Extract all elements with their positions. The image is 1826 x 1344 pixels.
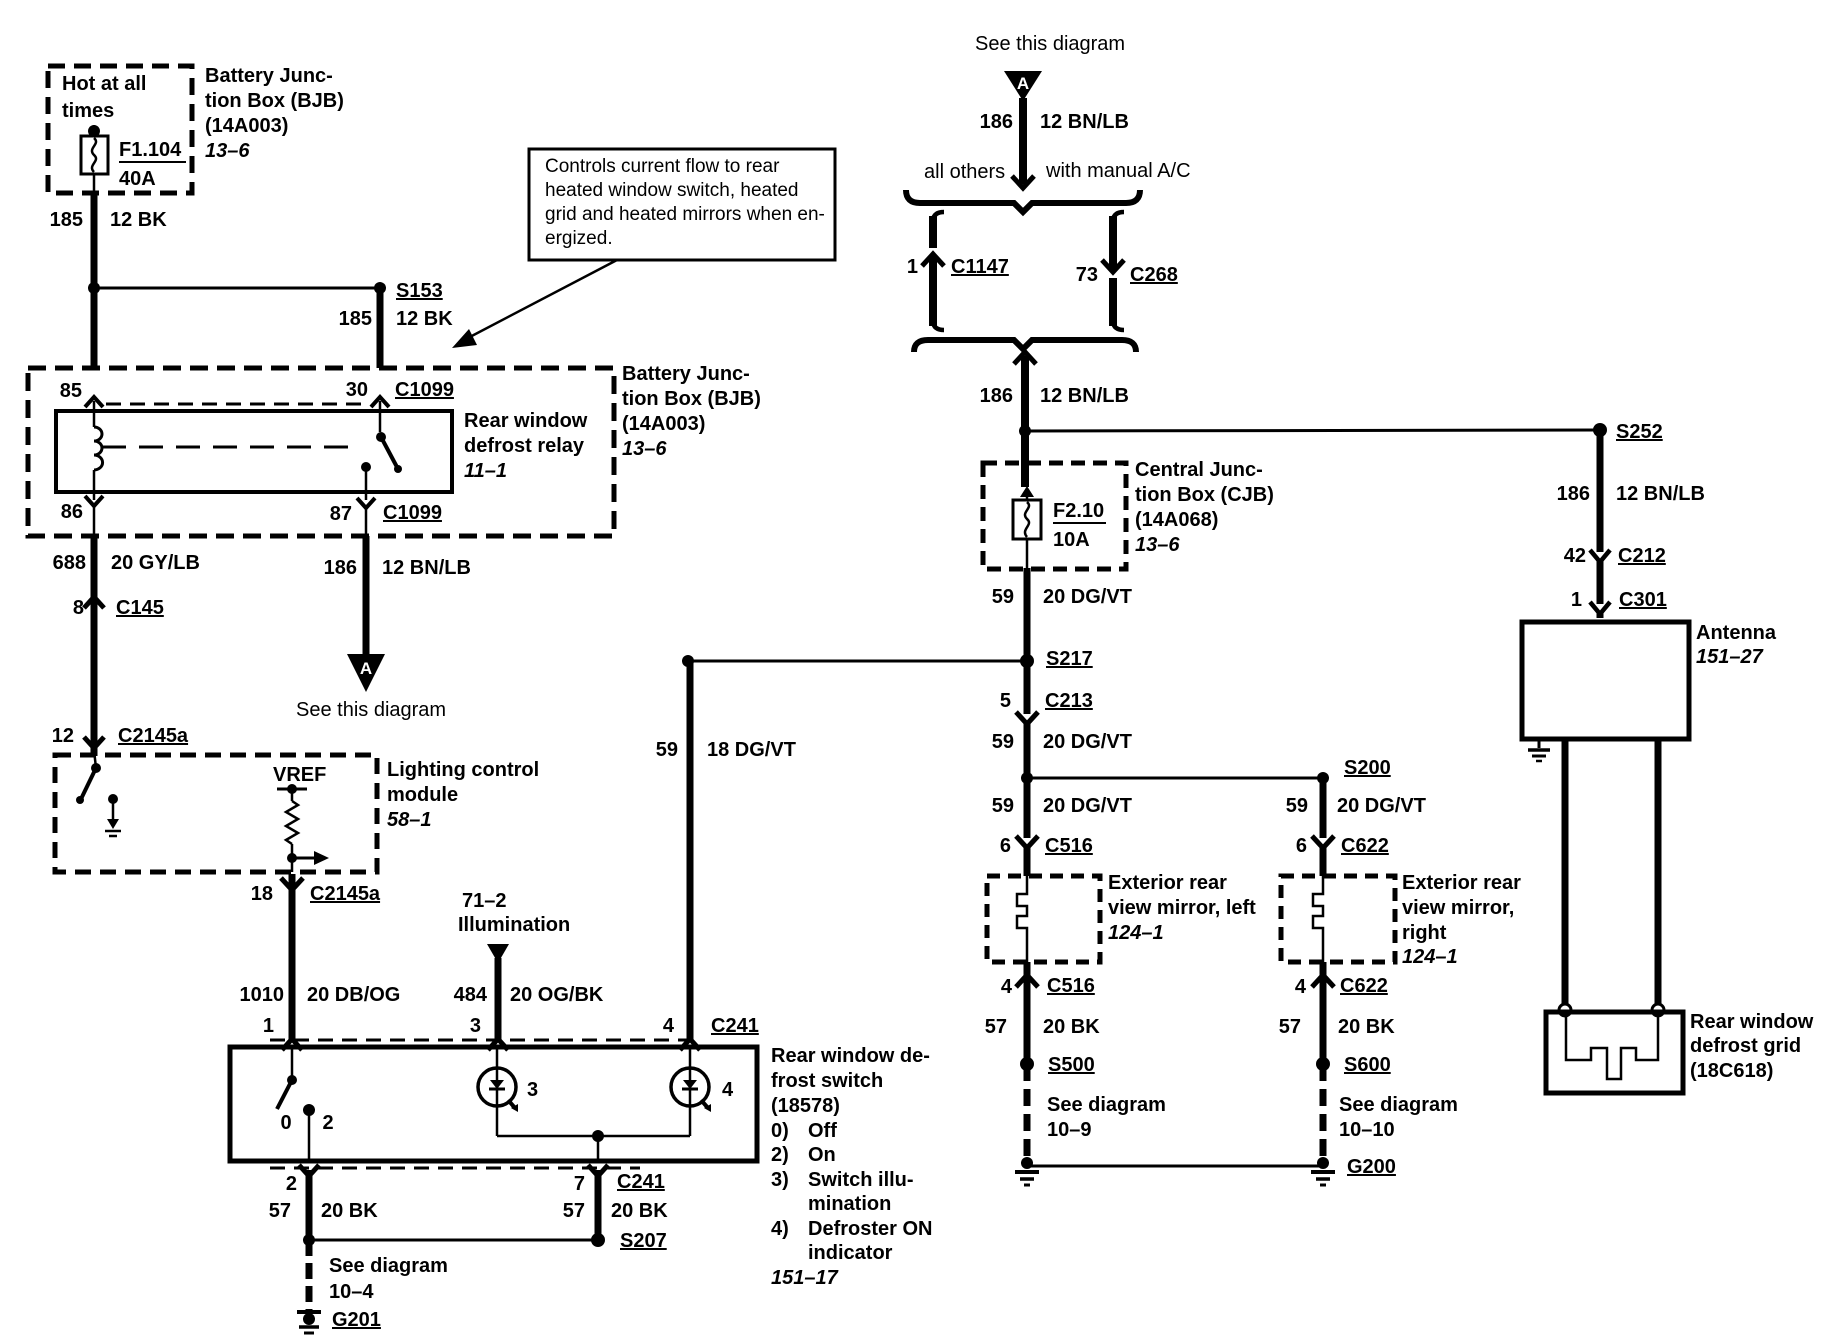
fuse F1.104 40A [81,125,186,190]
lamp common wire [497,1105,690,1161]
svg-text:57: 57 [269,1200,291,1222]
connector 8 C145 [73,597,164,619]
svg-text:heated window switch, heated: heated window switch, heated [545,180,799,201]
svg-text:Battery Junc-: Battery Junc- [622,363,750,385]
svg-text:indicator: indicator [808,1242,893,1264]
svg-text:87: 87 [330,503,352,525]
svg-text:grid and heated mirrors when e: grid and heated mirrors when en- [545,204,825,225]
wire 59 20 DG/VT (right mirror) [1286,778,1426,876]
svg-text:57: 57 [1279,1016,1301,1038]
svg-text:S207: S207 [620,1230,667,1252]
svg-text:10–10: 10–10 [1339,1119,1395,1141]
splice S500 [1020,1054,1166,1160]
svg-text:C212: C212 [1618,545,1666,567]
pin 30 C1099 [346,379,454,432]
right mirror heater element [1313,876,1323,962]
svg-text:20 DG/VT: 20 DG/VT [1337,795,1426,817]
svg-text:S153: S153 [396,280,443,302]
grid terminal right [1652,1004,1664,1016]
svg-text:VREF: VREF [273,764,326,786]
svg-text:185: 185 [339,308,372,330]
svg-text:6: 6 [1296,835,1307,857]
svg-text:Exterior rear: Exterior rear [1108,872,1227,894]
svg-text:tion Box (BJB): tion Box (BJB) [622,388,761,410]
svg-text:C241: C241 [617,1171,665,1193]
connector 73 C268 [1076,212,1178,330]
ground G201 [297,1309,381,1333]
svg-text:C1099: C1099 [383,502,442,524]
svg-text:C2145a: C2145a [310,883,381,905]
pin 4 C516 [985,962,1100,1064]
wire 185 12 BK [50,174,168,368]
svg-text:Switch illu-: Switch illu- [808,1169,914,1191]
svg-text:73: 73 [1076,264,1098,286]
exterior rear view mirror right box [1281,872,1521,968]
svg-text:frost switch: frost switch [771,1070,883,1092]
svg-text:C268: C268 [1130,264,1178,286]
connector C241 top pins [263,1015,759,1050]
svg-text:4: 4 [722,1079,734,1101]
relay coil to pin 86 [93,470,96,500]
svg-text:Rear window: Rear window [464,410,588,432]
brace bottom [914,340,1136,352]
svg-text:See this diagram: See this diagram [296,699,446,721]
node S153 [88,280,453,330]
LCM internal ground stub [105,794,121,836]
svg-text:186: 186 [324,557,357,579]
wire 186 12 BN/LB (top) [980,98,1129,188]
svg-text:4): 4) [771,1218,789,1240]
antenna to grid wire left [1562,739,1569,1006]
svg-text:12 BN/LB: 12 BN/LB [1040,385,1129,407]
exterior rear view mirror left box [987,872,1256,962]
svg-text:2: 2 [286,1173,297,1195]
svg-text:C241: C241 [711,1015,759,1037]
note arrow [452,260,617,348]
svg-text:124–1: 124–1 [1108,922,1164,944]
svg-text:(14A003): (14A003) [205,115,288,137]
svg-text:S600: S600 [1344,1054,1391,1076]
svg-text:On: On [808,1144,836,1166]
antenna to grid wire right [1655,739,1662,1006]
svg-text:C145: C145 [116,597,164,619]
svg-text:(14A068): (14A068) [1135,509,1218,531]
svg-text:F1.104: F1.104 [119,139,182,161]
svg-text:4: 4 [1295,976,1307,998]
svg-text:See diagram: See diagram [1047,1094,1166,1116]
left mirror heater element [1017,876,1027,962]
svg-text:Rear window de-: Rear window de- [771,1045,930,1067]
svg-text:12 BN/LB: 12 BN/LB [382,557,471,579]
svg-text:1010: 1010 [240,984,285,1006]
svg-text:3): 3) [771,1169,789,1191]
svg-text:See diagram: See diagram [329,1255,448,1277]
wire 186 12 BN/LB (middle) [980,352,1129,487]
svg-text:59: 59 [992,731,1014,753]
svg-text:C516: C516 [1045,835,1093,857]
svg-text:10A: 10A [1053,529,1090,551]
svg-text:7: 7 [574,1173,585,1195]
rear window defrost grid box [1546,1011,1814,1093]
svg-text:18: 18 [251,883,273,905]
svg-text:module: module [387,784,458,806]
svg-text:Hot at all: Hot at all [62,73,146,95]
wire 688 20 GY/LB [53,536,200,756]
rear window defrost relay box [56,410,588,492]
svg-text:Illumination: Illumination [458,914,570,936]
svg-text:688: 688 [53,552,86,574]
pin 87 C1099 [330,498,442,537]
svg-text:(18578): (18578) [771,1095,840,1117]
VREF output node with arrow [287,851,329,865]
svg-text:Lighting control: Lighting control [387,759,539,781]
switch illumination lamp 3 [478,1047,538,1112]
wire 59 20 DG/VT (below CJB) [992,568,1132,846]
svg-text:20 BK: 20 BK [321,1200,378,1222]
LCM internal switch [76,750,101,804]
svg-text:1: 1 [907,256,918,278]
note box [529,149,835,260]
svg-text:20 BK: 20 BK [611,1200,668,1222]
connector 42 C212 [1564,545,1666,567]
svg-text:5: 5 [1000,690,1011,712]
grid terminal left [1559,1004,1571,1016]
svg-text:2): 2) [771,1144,789,1166]
svg-text:10–9: 10–9 [1047,1119,1092,1141]
svg-text:10–4: 10–4 [329,1281,374,1303]
svg-text:A: A [1017,74,1029,93]
svg-text:8: 8 [73,597,84,619]
connector dashed line C1099 top [106,403,368,406]
svg-text:20 OG/BK: 20 OG/BK [510,984,604,1006]
svg-text:C1099: C1099 [395,379,454,401]
ground (left mirror) [1015,1157,1039,1185]
svg-text:86: 86 [61,501,83,523]
svg-text:C213: C213 [1045,690,1093,712]
illumination feed 71-2 [458,890,570,963]
svg-text:view mirror,: view mirror, [1402,897,1514,919]
svg-text:124–1: 124–1 [1402,946,1458,968]
pin 18 C2145a [251,878,381,905]
svg-text:59: 59 [992,795,1014,817]
defrost switch contact [277,1047,334,1161]
svg-text:Off: Off [808,1120,837,1142]
svg-text:30: 30 [346,379,368,401]
connector 1 C301 [1571,589,1667,614]
connector 5 C213 [992,690,1132,753]
svg-text:59: 59 [1286,795,1308,817]
svg-text:42: 42 [1564,545,1586,567]
svg-text:S252: S252 [1616,421,1663,443]
splice S252 [1593,421,1663,443]
svg-text:20 DB/OG: 20 DB/OG [307,984,400,1006]
svg-text:See diagram: See diagram [1339,1094,1458,1116]
svg-text:C622: C622 [1340,975,1388,997]
svg-text:G201: G201 [332,1309,381,1331]
svg-text:3: 3 [527,1079,538,1101]
defrost grid element [1566,1014,1658,1079]
svg-text:1: 1 [263,1015,274,1037]
svg-text:0: 0 [280,1112,291,1134]
svg-text:186: 186 [1557,483,1590,505]
svg-text:6: 6 [1000,835,1011,857]
svg-text:186: 186 [980,385,1013,407]
wire 59 18 DG/VT [656,655,796,1040]
svg-text:18 DG/VT: 18 DG/VT [707,739,796,761]
svg-text:Defroster ON: Defroster ON [808,1218,932,1240]
splice S207 [303,1230,667,1252]
svg-text:(18C618): (18C618) [1690,1060,1773,1082]
battery junction box (BJB) dashed enclosure [28,363,761,536]
pin 85 [60,380,103,427]
svg-text:Controls current flow to rear: Controls current flow to rear [545,156,780,177]
svg-text:C516: C516 [1047,975,1095,997]
svg-text:20 DG/VT: 20 DG/VT [1043,731,1132,753]
svg-text:Antenna: Antenna [1696,622,1777,644]
svg-text:C301: C301 [1619,589,1667,611]
svg-text:1: 1 [1571,589,1582,611]
defroster ON indicator lamp 4 [671,1047,734,1112]
svg-text:57: 57 [563,1200,585,1222]
central junction box (CJB) [983,459,1274,569]
svg-text:S500: S500 [1048,1054,1095,1076]
svg-text:ergized.: ergized. [545,228,613,249]
wire 57 20 BK (lamp ground) [563,1170,668,1240]
svg-text:59: 59 [656,739,678,761]
svg-text:Exterior rear: Exterior rear [1402,872,1521,894]
svg-text:4: 4 [1001,976,1013,998]
svg-text:See this diagram: See this diagram [975,33,1125,55]
svg-text:Battery Junc-: Battery Junc- [205,65,333,87]
VREF pull-up resistor [273,764,326,872]
svg-text:A: A [360,659,372,678]
fuse F2.10 10A [1013,486,1106,569]
svg-text:tion Box (BJB): tion Box (BJB) [205,90,344,112]
svg-text:with manual A/C: with manual A/C [1045,160,1191,182]
svg-text:G200: G200 [1347,1156,1396,1178]
pin 4 C622 [1279,962,1395,1064]
connector 12 C2145a [52,725,189,748]
connector 1 C1147 [907,212,1009,330]
svg-text:view mirror, left: view mirror, left [1108,897,1256,919]
wire 57 20 BK (switch ground) [269,1170,378,1240]
svg-text:13–6: 13–6 [1135,534,1180,556]
svg-text:Rear window: Rear window [1690,1011,1814,1033]
svg-text:F2.10: F2.10 [1053,500,1104,522]
rear window defrost switch box [230,1045,932,1289]
node to S252 [1019,425,1600,437]
relay coil [94,427,103,470]
svg-text:3: 3 [470,1015,481,1037]
svg-text:20 GY/LB: 20 GY/LB [111,552,200,574]
svg-text:20 BK: 20 BK [1338,1016,1395,1038]
svg-text:right: right [1402,922,1447,944]
svg-text:defrost relay: defrost relay [464,435,585,457]
splice S200 [1021,757,1391,784]
splice S217 [688,648,1093,670]
svg-text:C2145a: C2145a [118,725,189,747]
svg-text:S217: S217 [1046,648,1093,670]
svg-text:40A: 40A [119,168,156,190]
svg-text:20 DG/VT: 20 DG/VT [1043,795,1132,817]
power source box Hot at all times [48,66,192,193]
svg-text:Central Junc-: Central Junc- [1135,459,1263,481]
ground G200 [1311,1156,1396,1185]
svg-text:all others: all others [924,161,1005,183]
svg-text:151–17: 151–17 [771,1267,839,1289]
antenna box [1522,622,1777,739]
wire 1010 20 DB/OG [240,874,401,1040]
svg-text:58–1: 58–1 [387,809,432,831]
svg-text:tion Box (CJB): tion Box (CJB) [1135,484,1274,506]
wire 484 20 OG/BK [454,958,604,1040]
svg-text:59: 59 [992,586,1014,608]
ground G200 link [1027,1165,1323,1168]
svg-text:57: 57 [985,1016,1007,1038]
svg-text:186: 186 [980,111,1013,133]
lighting control module box [55,755,539,872]
svg-text:mination: mination [808,1193,891,1215]
off-page arrow A (to this diagram) [296,654,446,721]
svg-text:S200: S200 [1344,757,1391,779]
splice S600 [1316,1054,1458,1160]
svg-text:12 BK: 12 BK [110,209,167,231]
svg-text:13–6: 13–6 [622,438,667,460]
svg-text:12 BK: 12 BK [396,308,453,330]
svg-text:times: times [62,100,114,122]
svg-text:484: 484 [454,984,488,1006]
svg-text:20 DG/VT: 20 DG/VT [1043,586,1132,608]
svg-text:11–1: 11–1 [464,460,507,482]
wire to G201 [309,1240,448,1311]
svg-text:13–6: 13–6 [205,140,250,162]
connector C241 bottom pins [270,1165,665,1195]
wire 186 12 BN/LB (relay output) [324,536,471,656]
pin 86 [61,496,103,537]
battery junction box label (top) [205,65,344,162]
wire 186 12 BN/LB (antenna feed) [1557,430,1705,618]
svg-text:12 BN/LB: 12 BN/LB [1040,111,1129,133]
svg-text:20 BK: 20 BK [1043,1016,1100,1038]
option split labels [924,160,1191,183]
svg-text:151–27: 151–27 [1696,646,1764,668]
svg-text:85: 85 [60,380,82,402]
wire S153 to relay pin 30 [377,288,384,368]
svg-text:0): 0) [771,1120,789,1142]
svg-text:4: 4 [663,1015,675,1037]
svg-text:12 BN/LB: 12 BN/LB [1616,483,1705,505]
off-page arrow A (from this diagram) [975,33,1125,101]
antenna ground [1528,739,1550,761]
wire 59 20 DG/VT (left mirror) [992,795,1132,876]
svg-text:71–2: 71–2 [462,890,507,912]
svg-text:12: 12 [52,725,74,747]
relay internal dashed link [102,446,348,449]
svg-text:185: 185 [50,209,83,231]
relay switch [361,432,402,500]
svg-text:C622: C622 [1341,835,1389,857]
svg-text:C1147: C1147 [951,256,1009,278]
svg-text:(14A003): (14A003) [622,413,705,435]
svg-text:defrost grid: defrost grid [1690,1035,1801,1057]
brace top [906,190,1140,212]
svg-text:2: 2 [322,1112,333,1134]
